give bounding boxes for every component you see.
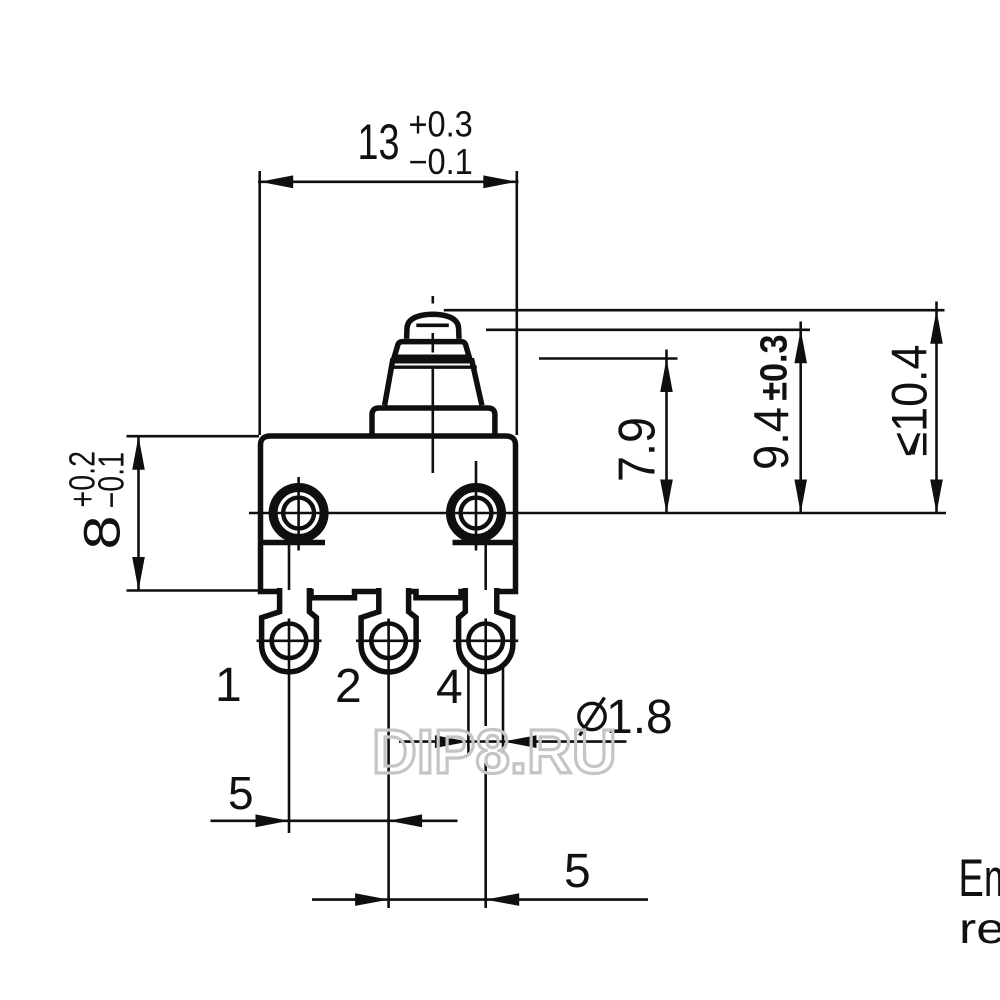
- reference line free position: [486, 328, 810, 331]
- svg-text:≤10.4: ≤10.4: [882, 345, 938, 457]
- plunger centerline: [431, 296, 434, 304]
- cone inner edge: [390, 366, 477, 369]
- terminal 2 hole: [371, 624, 406, 659]
- extension line 13 right: [515, 171, 518, 435]
- extension line 8 top: [127, 435, 260, 438]
- right mounting hole: [451, 488, 502, 539]
- dome chord line: [416, 323, 449, 327]
- right hole stand: [453, 540, 516, 546]
- extension line 13 left: [258, 171, 261, 435]
- reference line plunger tip: [444, 309, 945, 312]
- reference line operating position: [539, 357, 678, 360]
- terminal 2 centerline: [387, 619, 390, 909]
- terminal 1 lug: [262, 588, 317, 672]
- svg-text:13: 13: [358, 114, 400, 170]
- svg-text:7.9: 7.9: [609, 417, 667, 482]
- plunger collar ring: [394, 342, 469, 358]
- extension line 8 bottom: [127, 589, 263, 592]
- svg-text:2: 2: [335, 660, 362, 713]
- terminal 1 centerline: [288, 544, 291, 590]
- plunger dome: [407, 314, 459, 339]
- svg-text:1: 1: [215, 659, 242, 712]
- dimension line 7.9: [665, 350, 668, 514]
- svg-text:5: 5: [228, 767, 254, 819]
- svg-text:Em: Em: [959, 849, 1000, 908]
- terminal 4 hole horizontal crosshair: [453, 639, 518, 642]
- svg-text:+0.3: +0.3: [409, 103, 473, 144]
- svg-text:−0.1: −0.1: [409, 141, 473, 182]
- terminal 2 lug: [361, 588, 416, 672]
- dimension line 5 first: [211, 819, 458, 822]
- svg-text:±0.3: ±0.3: [754, 335, 796, 401]
- terminal 4 lug: [459, 588, 513, 672]
- plunger cone: [385, 361, 482, 406]
- dimension line 10.4: [935, 302, 938, 514]
- svg-text:9.4: 9.4: [745, 407, 799, 470]
- dimension line 5 second: [312, 898, 648, 901]
- svg-text:re: re: [959, 905, 1000, 953]
- left hole vertical crosshair: [297, 477, 300, 551]
- terminal 1 hole horizontal crosshair: [257, 639, 322, 642]
- hole axis centerline: [249, 512, 946, 515]
- hole tangent extension lines: [467, 668, 470, 754]
- svg-text:−0.1: −0.1: [91, 452, 132, 509]
- left hole stand: [261, 540, 325, 546]
- svg-text:DIP8.RU: DIP8.RU: [372, 718, 617, 787]
- left mounting hole: [273, 488, 324, 539]
- label dia 1.8: [579, 703, 605, 729]
- terminal 4 centerline: [484, 544, 487, 590]
- svg-text:5: 5: [564, 845, 591, 898]
- right hole vertical crosshair: [475, 461, 478, 551]
- dimension line dia 1.8: [399, 740, 627, 743]
- dimension line 9.4: [799, 322, 802, 514]
- svg-text:8: 8: [73, 515, 130, 549]
- svg-text:4: 4: [436, 661, 463, 714]
- dimension line 8: [137, 435, 140, 591]
- plunger base step: [372, 408, 495, 436]
- dimension line 13: [258, 181, 519, 184]
- terminal 1 hole: [272, 624, 307, 659]
- switch body outline: [261, 436, 516, 598]
- terminal 4 hole: [468, 624, 503, 659]
- terminal 2 hole horizontal crosshair: [356, 639, 421, 642]
